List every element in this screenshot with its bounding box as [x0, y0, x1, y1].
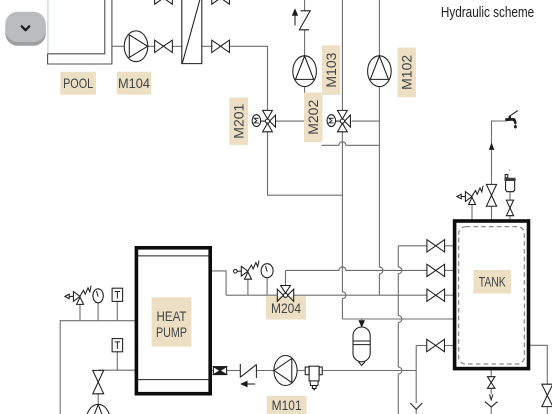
wire valve4 line	[416, 345, 427, 347]
wire M202 right port to M102 riser	[352, 120, 380, 122]
label TANK	[474, 270, 512, 294]
wire valve1 to tank	[445, 245, 456, 247]
valve V2 top	[212, 40, 230, 52]
button collapse	[5, 12, 46, 46]
valve tank 4	[427, 339, 445, 351]
wire valve to pump bottom left	[97, 394, 99, 405]
heat pump box	[136, 248, 210, 394]
heat exchanger	[182, 0, 202, 64]
tank	[455, 221, 529, 369]
wire to M204 valve	[226, 294, 277, 296]
wire union to check valve	[227, 370, 241, 372]
svg-text:M202: M202	[306, 100, 321, 135]
wire valve4 to tank	[444, 345, 455, 347]
pump M104	[124, 31, 148, 62]
svg-text:POOL: POOL	[63, 76, 93, 91]
valve big tap line	[486, 184, 496, 206]
wire valve to tank top 2	[509, 216, 511, 221]
wire valve to tank top	[491, 206, 493, 221]
flow arrow up tap line	[490, 144, 494, 150]
T sensor 1	[112, 288, 123, 301]
wire gauge stem	[97, 303, 99, 321]
valve cut top-right	[212, 0, 230, 4]
svg-text:HEAT: HEAT	[157, 309, 187, 324]
wire valve1 line	[398, 245, 427, 247]
label M102	[398, 48, 416, 98]
label POOL	[60, 72, 96, 95]
safety valve M204 group	[234, 261, 260, 280]
wire M201 bottom to node	[268, 132, 343, 195]
wire valve to heat exchanger	[172, 45, 181, 47]
wire valve to M201 riser	[229, 46, 268, 110]
filter	[305, 366, 322, 390]
label M201	[229, 98, 248, 145]
valve tank 1	[427, 240, 445, 252]
valve air vent	[506, 200, 513, 216]
wire M103 break to pump	[304, 30, 306, 56]
label M204	[266, 296, 306, 319]
wire tap line	[492, 121, 506, 184]
tap	[505, 111, 518, 129]
wire M102 pump down	[379, 87, 383, 296]
wire M204 safety stem	[247, 279, 249, 295]
wire drain funnel outlet	[415, 410, 417, 414]
pool	[48, 0, 112, 64]
svg-text:M101: M101	[272, 398, 302, 413]
pump M101	[274, 356, 297, 386]
funnel node drain	[410, 403, 422, 409]
wire funnel outlet	[490, 407, 492, 414]
wire M103 riser top	[304, 0, 306, 11]
svg-text:M204: M204	[271, 301, 301, 316]
valve tank drain	[487, 377, 495, 389]
valve V1 top	[155, 40, 173, 52]
expansion vessel	[353, 321, 370, 366]
svg-text:M102: M102	[400, 55, 415, 90]
wire T sensor stem 2	[116, 351, 118, 370]
wire right riser	[398, 246, 402, 414]
valve cut top-left	[155, 0, 173, 4]
wire heat pump left supply	[60, 321, 134, 414]
wire filter to node	[322, 370, 416, 372]
valve M204	[277, 286, 293, 302]
valve M201	[252, 110, 275, 131]
check valve	[240, 364, 256, 378]
wire M204 top header	[286, 267, 428, 286]
wire drain valve to funnel	[490, 388, 492, 394]
title Hydraulic scheme	[441, 5, 534, 21]
wire M204 to tank valve3	[294, 294, 427, 296]
valve tank 3	[427, 289, 445, 301]
safety valve heat pump	[65, 286, 91, 305]
label M103	[322, 45, 340, 95]
wire heat pump to union	[212, 370, 213, 372]
wire safety valve stem	[79, 304, 81, 320]
svg-text:Hydraulic scheme: Hydraulic scheme	[441, 5, 534, 21]
wire heat exchanger to valve	[202, 45, 213, 47]
wire pool to pump M104	[112, 45, 124, 47]
gauge M204 group	[261, 264, 273, 278]
svg-text:M104: M104	[118, 76, 150, 91]
pump M103	[293, 56, 317, 87]
wire M201 right port to M103 riser	[276, 120, 305, 122]
valve bottom right	[542, 384, 552, 406]
wire node to valve4 and drain	[415, 346, 417, 404]
wire T sensor stem	[116, 301, 118, 320]
wire M204 gauge stem	[266, 278, 268, 295]
flow arrow up	[293, 10, 298, 26]
wire tank drain	[490, 368, 492, 376]
wire valve3 to tank	[445, 294, 456, 296]
valve M202	[327, 110, 350, 131]
wire M202 bottom riser	[342, 132, 346, 319]
wire heat pump left return	[98, 369, 134, 371]
pump bottom left	[86, 404, 110, 414]
svg-text:M103: M103	[324, 52, 339, 87]
valve tank 2	[427, 264, 445, 276]
wire expansion vessel stem	[361, 319, 363, 326]
wire tank safety stem	[471, 205, 473, 222]
wire check valve to pump M101	[256, 370, 274, 372]
wire M102 riser top	[378, 0, 380, 56]
wire valve2 to tank	[445, 269, 456, 271]
open arrow down drain	[490, 394, 493, 399]
flow arrow left	[241, 381, 255, 386]
wire bypass line	[322, 142, 380, 145]
label M104	[117, 72, 151, 95]
wire right valve outlet	[546, 407, 548, 414]
wire pump M104 to valve	[148, 45, 155, 47]
pipe break symbol	[299, 11, 310, 30]
wire heat pump outlet	[212, 271, 226, 295]
valve bottom left	[93, 370, 104, 393]
union	[213, 367, 226, 375]
safety valve tank	[457, 186, 483, 205]
label M202	[304, 93, 323, 143]
air vent	[505, 170, 516, 192]
wire tank right outlet	[529, 345, 548, 384]
svg-text:M201: M201	[232, 104, 247, 139]
wire M103 pump to node	[304, 86, 306, 121]
label M101	[267, 396, 307, 414]
funnel tank drain	[485, 402, 498, 407]
wire pump M101 to filter	[297, 370, 305, 372]
svg-text:PUMP: PUMP	[156, 325, 187, 340]
svg-text:TANK: TANK	[479, 275, 507, 290]
label HEAT PUMP	[152, 297, 192, 346]
wire air vent to valve	[509, 192, 511, 200]
pump M102	[368, 56, 392, 87]
wire bottom header to tank	[342, 318, 455, 320]
T sensor 2	[112, 339, 123, 352]
wire M202 riser top	[341, 0, 343, 110]
gauge heat pump	[93, 289, 103, 303]
